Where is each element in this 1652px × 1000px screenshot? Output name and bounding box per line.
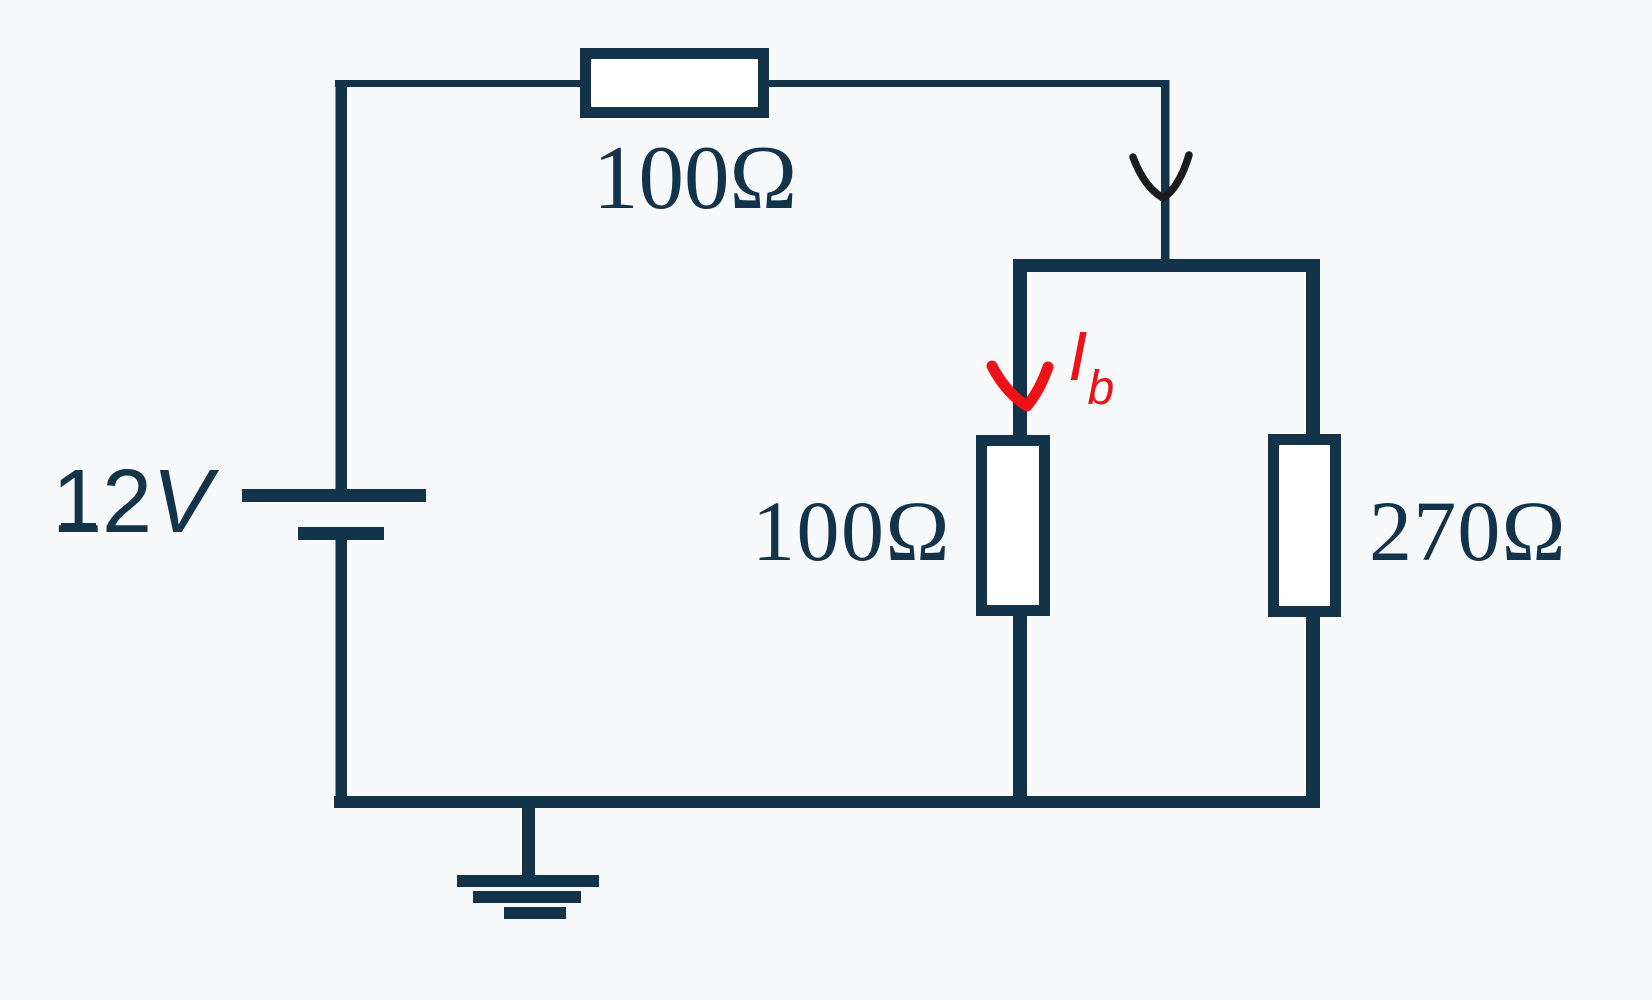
wire: top horizontal from battery to node A (335, 80, 1169, 87)
wire: ground stub (522, 800, 535, 877)
wire: right parallel branch vertical (1306, 259, 1320, 808)
resistor R1 100ohm horizontal (586, 54, 764, 113)
svg-text:100Ω: 100Ω (752, 483, 951, 579)
ground plate 2 (473, 891, 581, 903)
wire: left parallel branch vertical (1013, 259, 1027, 802)
wire: top bar of parallel section (node A) (1013, 259, 1318, 272)
wire: bottom horizontal return (334, 796, 1320, 808)
label V1 value 12V foot serif of digit 1 (61, 523, 96, 532)
resistor R2 100ohm vertical (982, 441, 1045, 611)
resistor R3 270ohm vertical (1274, 440, 1336, 612)
wire: left vertical (battery branch upper) (336, 80, 348, 494)
ground plate 3 (504, 907, 566, 919)
wire: right feed vertical from top wire to node A bar (1161, 80, 1170, 265)
arrow: black current direction arrow on feed wire (1133, 155, 1189, 198)
wire: left vertical (battery branch lower) (336, 533, 348, 808)
ground plate 1 (457, 875, 599, 887)
battery V1 positive plate (242, 489, 426, 502)
svg-text:12V: 12V (52, 452, 220, 552)
svg-text:100Ω: 100Ω (593, 127, 797, 228)
svg-text:270Ω: 270Ω (1369, 483, 1567, 579)
battery V1 negative plate (298, 527, 384, 540)
arrow: red Ib current arrow (992, 366, 1048, 406)
